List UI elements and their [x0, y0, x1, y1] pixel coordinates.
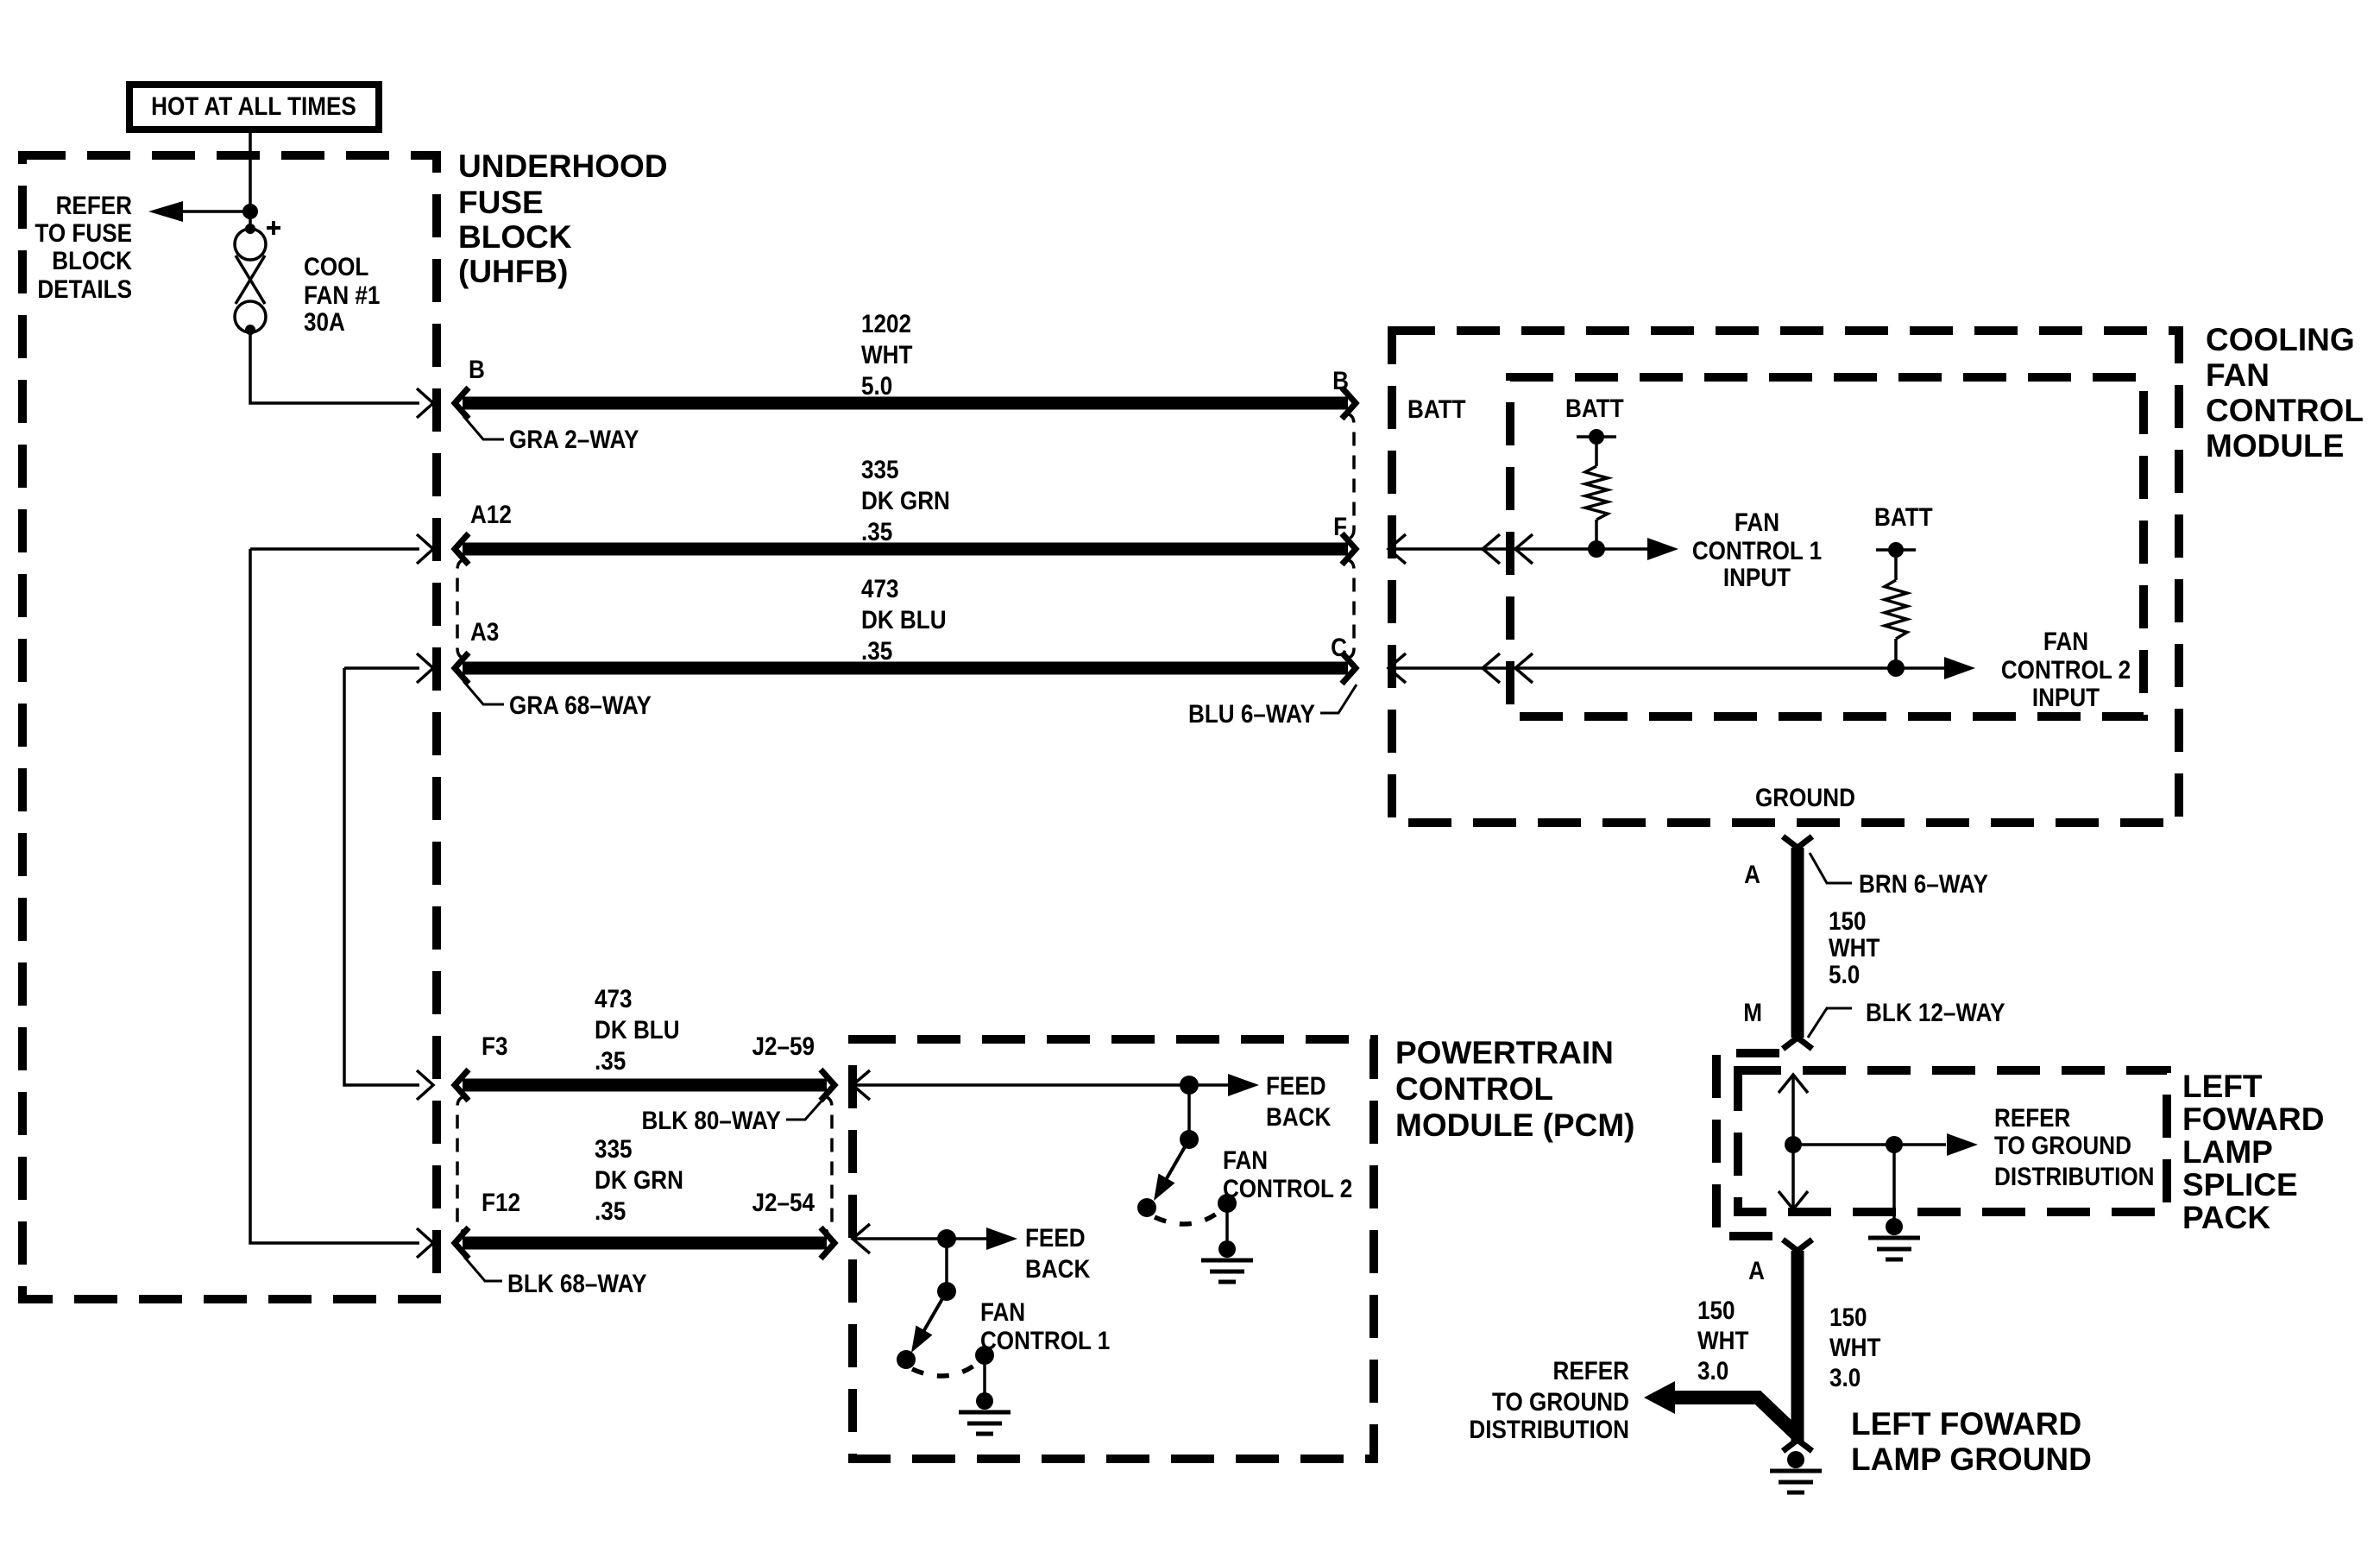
svg-text:M: M: [1743, 998, 1762, 1026]
svg-text:GRA 2–WAY: GRA 2–WAY: [509, 425, 639, 453]
svg-text:LAMP GROUND: LAMP GROUND: [1851, 1442, 2092, 1477]
svg-text:BLOCK: BLOCK: [52, 246, 132, 275]
svg-text:CONTROL 1: CONTROL 1: [1692, 536, 1822, 565]
svg-text:B: B: [469, 355, 485, 383]
svg-text:REFER: REFER: [1553, 1356, 1629, 1385]
svg-text:FAN: FAN: [2206, 357, 2270, 393]
svg-text:DK BLU: DK BLU: [595, 1015, 680, 1044]
svg-text:.35: .35: [595, 1196, 626, 1225]
svg-text:473: 473: [595, 984, 633, 1013]
svg-text:LEFT FOWARD: LEFT FOWARD: [1851, 1406, 2081, 1442]
svg-text:DK BLU: DK BLU: [861, 605, 947, 634]
svg-text:TO GROUND: TO GROUND: [1492, 1387, 1629, 1416]
svg-text:1202: 1202: [861, 309, 911, 338]
svg-text:(UHFB): (UHFB): [458, 254, 568, 289]
svg-text:GROUND: GROUND: [1755, 783, 1855, 811]
svg-text:FAN #1: FAN #1: [304, 281, 380, 309]
svg-text:CONTROL 2: CONTROL 2: [2001, 655, 2131, 684]
svg-text:A3: A3: [470, 617, 499, 646]
svg-text:DK GRN: DK GRN: [595, 1165, 683, 1194]
svg-text:BATT: BATT: [1565, 394, 1624, 422]
svg-text:TO GROUND: TO GROUND: [1994, 1131, 2131, 1159]
svg-text:HOT AT ALL TIMES: HOT AT ALL TIMES: [151, 92, 356, 120]
svg-text:FUSE: FUSE: [458, 185, 544, 220]
svg-text:MODULE: MODULE: [2206, 428, 2344, 464]
svg-text:BACK: BACK: [1266, 1102, 1332, 1131]
svg-text:FEED: FEED: [1266, 1071, 1326, 1100]
svg-text:5.0: 5.0: [861, 371, 892, 400]
svg-text:WHT: WHT: [1829, 1333, 1880, 1361]
svg-text:FAN: FAN: [980, 1297, 1025, 1326]
svg-text:FEED: FEED: [1025, 1223, 1086, 1252]
svg-text:BLU 6–WAY: BLU 6–WAY: [1188, 699, 1315, 728]
svg-text:DISTRIBUTION: DISTRIBUTION: [1994, 1162, 2155, 1190]
svg-text:150: 150: [1829, 906, 1867, 935]
svg-text:INPUT: INPUT: [1723, 563, 1791, 591]
svg-text:F: F: [1333, 512, 1347, 540]
svg-text:CONTROL 1: CONTROL 1: [980, 1326, 1110, 1354]
svg-text:REFER: REFER: [56, 191, 132, 219]
svg-text:COOLING: COOLING: [2206, 322, 2355, 357]
svg-text:473: 473: [861, 574, 899, 603]
svg-text:A12: A12: [470, 500, 512, 528]
svg-text:FAN: FAN: [1223, 1145, 1268, 1174]
svg-text:J2–59: J2–59: [752, 1032, 815, 1060]
svg-text:F3: F3: [482, 1032, 507, 1060]
svg-text:A: A: [1744, 860, 1760, 888]
svg-text:CONTROL 2: CONTROL 2: [1223, 1174, 1352, 1202]
svg-text:DISTRIBUTION: DISTRIBUTION: [1469, 1415, 1629, 1443]
svg-text:DK GRN: DK GRN: [861, 486, 950, 514]
svg-text:BLK 68–WAY: BLK 68–WAY: [507, 1269, 647, 1297]
svg-text:TO FUSE: TO FUSE: [35, 218, 132, 247]
svg-text:GRA 68–WAY: GRA 68–WAY: [509, 691, 652, 719]
svg-text:UNDERHOOD: UNDERHOOD: [458, 148, 668, 184]
svg-text:BRN 6–WAY: BRN 6–WAY: [1859, 869, 1988, 898]
svg-text:3.0: 3.0: [1697, 1356, 1728, 1385]
svg-text:BLK 80–WAY: BLK 80–WAY: [642, 1106, 782, 1134]
svg-text:F12: F12: [482, 1188, 520, 1216]
svg-text:REFER: REFER: [1994, 1103, 2070, 1132]
svg-text:BACK: BACK: [1025, 1254, 1091, 1283]
svg-text:SPLICE: SPLICE: [2182, 1167, 2298, 1202]
svg-text:FOWARD: FOWARD: [2182, 1101, 2324, 1137]
svg-text:PACK: PACK: [2182, 1200, 2270, 1235]
svg-text:FAN: FAN: [2043, 627, 2088, 655]
svg-text:WHT: WHT: [1829, 933, 1879, 962]
svg-text:BATT: BATT: [1407, 394, 1466, 423]
svg-text:BATT: BATT: [1874, 502, 1933, 531]
svg-text:30A: 30A: [304, 307, 345, 336]
svg-text:5.0: 5.0: [1829, 960, 1860, 988]
svg-text:INPUT: INPUT: [2032, 683, 2100, 711]
svg-text:C: C: [1331, 633, 1347, 661]
svg-text:J2–54: J2–54: [752, 1188, 815, 1216]
svg-text:FAN: FAN: [1735, 508, 1779, 536]
svg-text:.35: .35: [861, 517, 892, 546]
svg-text:WHT: WHT: [861, 340, 912, 369]
svg-text:B: B: [1332, 366, 1349, 394]
svg-text:BLOCK: BLOCK: [458, 219, 572, 255]
svg-text:LEFT: LEFT: [2182, 1069, 2263, 1104]
svg-text:MODULE (PCM): MODULE (PCM): [1395, 1107, 1634, 1143]
svg-text:CONTROL: CONTROL: [1395, 1071, 1553, 1107]
svg-text:DETAILS: DETAILS: [37, 275, 132, 303]
svg-text:.35: .35: [595, 1046, 626, 1075]
svg-text:COOL: COOL: [304, 252, 368, 281]
svg-text:3.0: 3.0: [1829, 1363, 1861, 1391]
svg-text:POWERTRAIN: POWERTRAIN: [1395, 1035, 1614, 1070]
svg-text:335: 335: [595, 1134, 633, 1163]
svg-text:WHT: WHT: [1697, 1326, 1748, 1354]
svg-text:A: A: [1748, 1256, 1765, 1284]
svg-text:335: 335: [861, 455, 899, 483]
svg-text:150: 150: [1829, 1303, 1867, 1331]
svg-text:LAMP: LAMP: [2182, 1134, 2273, 1170]
svg-text:150: 150: [1697, 1296, 1735, 1324]
svg-text:CONTROL: CONTROL: [2206, 393, 2364, 428]
svg-text:.35: .35: [861, 636, 892, 665]
svg-text:BLK 12–WAY: BLK 12–WAY: [1866, 998, 2005, 1026]
